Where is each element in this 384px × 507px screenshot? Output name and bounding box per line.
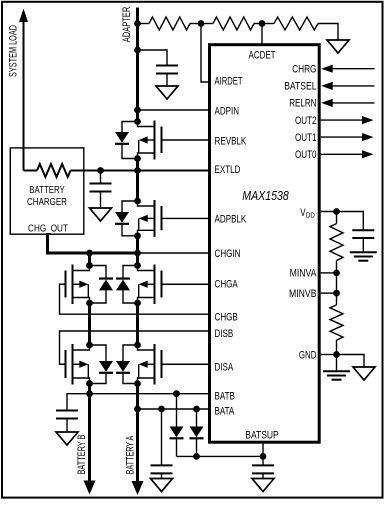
svg-text:EXTLD: EXTLD [215, 164, 241, 176]
svg-text:BATTERY: BATTERY [29, 185, 65, 196]
junction CHGIN line / battery-B bus [86, 250, 93, 257]
wire BATB line to pin [67, 394, 210, 411]
svg-text:DISA: DISA [215, 361, 234, 373]
wire ACDET node to ACDET pin [261, 24, 263, 45]
wire CHG_OUT from charger to CHGIN line [48, 235, 138, 253]
wire BATA line to pin [138, 408, 210, 410]
op-amp U1 MAX1538 (IC body) [210, 45, 320, 443]
svg-text:DD: DD [306, 210, 315, 219]
ground (below C1) [166, 74, 168, 87]
diode D4 (Q4 body diode) [123, 266, 138, 269]
svg-text:SYSTEM LOAD: SYSTEM LOAD [8, 25, 20, 77]
svg-text:BATTERY A: BATTERY A [125, 435, 137, 474]
capacitor C1 (adapter input bypass) [138, 50, 168, 66]
svg-text:CHRG: CHRG [292, 64, 316, 76]
svg-text:DISB: DISB [215, 328, 234, 340]
svg-text:OUT1: OUT1 [295, 132, 317, 144]
node BATB junction [86, 390, 93, 397]
ground (earth, below GND node) [336, 355, 338, 372]
svg-text:CHGB: CHGB [215, 311, 238, 323]
resistor R5 (MINVB to GND) [336, 293, 338, 305]
wire MINVA pin [321, 272, 337, 274]
svg-text:OUT2: OUT2 [295, 115, 317, 127]
svg-text:BATSEL: BATSEL [284, 81, 316, 93]
diode D3 (Q3 body diode) [90, 266, 107, 269]
transistor Q5 (DISB PMOS) [86, 342, 93, 349]
junction CHGIN line / adapter bus [134, 250, 141, 257]
ground (chassis, right of GND) [353, 367, 375, 380]
junction BATA to diode D8 [193, 406, 200, 413]
svg-text:BATTERY B: BATTERY B [76, 435, 88, 475]
svg-text:CHGIN: CHGIN [215, 248, 241, 260]
svg-text:CHG_OUT: CHG_OUT [28, 223, 68, 234]
transistor Q3 (CHGB PMOS) [86, 262, 93, 269]
wire battery-B bus CHG row to DIS row [88, 303, 91, 345]
svg-text:OUT0: OUT0 [295, 149, 317, 161]
node ACDET divider junction [259, 20, 266, 27]
svg-text:MINVB: MINVB [289, 288, 317, 300]
ground (below C4) [66, 419, 68, 433]
capacitor C3 (VDD bypass) [352, 229, 374, 231]
ground (top right, chassis symbol) [327, 40, 349, 53]
svg-text:BATA: BATA [215, 405, 235, 417]
wire ADPIN [138, 109, 210, 111]
transistor Q2 (ADPBLK PMOS) [134, 198, 141, 205]
node MINVA junction [333, 270, 340, 277]
resistor R4 (VDD to MINVA) [336, 212, 338, 224]
svg-text:MAX1538: MAX1538 [242, 189, 289, 203]
wire MINVA to MINVB [336, 273, 338, 293]
svg-text:AIRDET: AIRDET [215, 75, 243, 87]
junction VDD divider [333, 208, 340, 215]
transistor Q6 (DISA PMOS) [134, 342, 141, 349]
svg-text:RELRN: RELRN [289, 98, 316, 110]
svg-text:BATB: BATB [215, 390, 235, 402]
svg-text:ADPIN: ADPIN [215, 105, 240, 117]
junction BATSUP cap [260, 453, 267, 460]
ground (below C5) [161, 473, 163, 478]
wire GND pin [321, 354, 337, 356]
svg-text:BATSUP: BATSUP [245, 429, 279, 441]
node EXTLD cap junction [97, 167, 104, 174]
resistor R3 (ACDET node to ground) [262, 23, 274, 25]
svg-text:MINVA: MINVA [290, 268, 317, 280]
wire battery-B bus to BATB node [88, 384, 91, 394]
node SYSTEM LOAD (output arrow) [23, 21, 25, 171]
junction ADAPTER bus to input cap [134, 47, 141, 54]
capacitor C2 (EXTLD bypass) [100, 171, 102, 184]
node BATTERY A (terminal arrow) [136, 409, 139, 482]
junction ADAPTER bus to ADPIN [134, 107, 141, 114]
junction BATB to diode D7 [173, 390, 180, 397]
node ADAPTER (input bus) [136, 8, 139, 123]
svg-text:ADAPTER: ADAPTER [121, 7, 133, 43]
node AIRDET divider junction [198, 20, 205, 27]
diode D6 (Q6 body diode) [123, 345, 138, 349]
resistor R2 (AIRDET node to ACDET node) [201, 23, 213, 25]
resistor R6 (charger sense, system load to EXTLD line) [24, 170, 38, 172]
transistor Q4 (CHGA PMOS) [134, 262, 141, 269]
capacitor C5 (battery A bypass) [161, 409, 163, 465]
svg-text:ADPBLK: ADPBLK [215, 213, 247, 225]
diode D5 (Q5 body diode) [90, 345, 107, 349]
wire battery-A bus CHG row to DIS row [136, 303, 139, 345]
svg-text:REVBLK: REVBLK [215, 135, 247, 147]
ground (earth, below C3) [362, 238, 364, 252]
resistor R1 (ADAPTER to AIRDET node) [138, 23, 150, 25]
wire EXTLD line to pin [101, 170, 210, 172]
wire ADAPTER bus Q1 to EXTLD node [136, 159, 139, 171]
battery charger block [10, 148, 84, 234]
junction D8 on BATSUP rail [193, 453, 200, 460]
node BATA junction [134, 406, 141, 413]
wire AIRDET node to AIRDET pin [201, 24, 210, 83]
wire GND to chassis ground [337, 355, 365, 368]
node MINVB junction [333, 290, 340, 297]
wire adapter bus Q2 to CHGIN node [136, 236, 139, 253]
svg-text:CHARGER: CHARGER [27, 197, 67, 208]
diode D1 (Q1 body diode) [122, 122, 138, 127]
wire BATSUP pin stub [262, 442, 264, 456]
node BATTERY B (terminal arrow) [88, 394, 91, 482]
svg-text:ACDET: ACDET [249, 49, 276, 61]
transistor Q1 (REVBLK PMOS) [134, 118, 141, 125]
node EXTLD junction [134, 167, 141, 174]
junction BATA cap [158, 406, 165, 413]
capacitor C4 (battery B bypass) [56, 410, 78, 412]
diode D7 (BATB to BATSUP) [176, 394, 178, 427]
svg-text:GND: GND [299, 349, 317, 361]
junction on ADAPTER bus at top rail [134, 20, 141, 27]
wire battery-A bus to BATA node [136, 384, 139, 410]
diode D8 (BATA to BATSUP) [196, 409, 198, 427]
wire EXTLD node to Q2 [136, 171, 139, 202]
capacitor C6 (BATSUP bypass) [262, 456, 264, 465]
svg-text:CHGA: CHGA [215, 279, 239, 291]
wire bus CHGIN node to Q3 (battery B side) [88, 253, 91, 266]
ground (below C6) [262, 473, 264, 478]
wire bus CHGIN node to Q4 [136, 253, 139, 266]
wire CHGIN pin [138, 252, 210, 254]
wire VDD pin [321, 212, 364, 231]
wire BATSUP rail [177, 455, 264, 457]
ground (below C2) [100, 192, 102, 209]
wire MINVB pin [321, 292, 337, 294]
node GND junction [333, 351, 340, 358]
diode D2 (Q2 body diode) [122, 201, 138, 206]
